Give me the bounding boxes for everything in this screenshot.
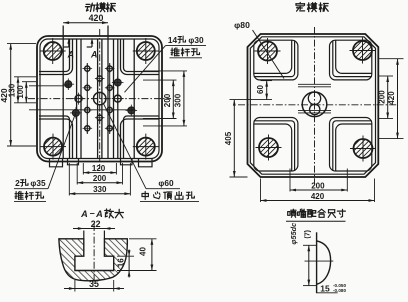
- locating ring and sprue circles: [302, 92, 327, 117]
- 14 ejector pin holes phi30: [85, 66, 90, 71]
- svg-text:420: 420: [311, 192, 325, 201]
- svg-text:200: 200: [311, 181, 325, 190]
- svg-text:2: 2: [15, 178, 20, 188]
- svg-text:200: 200: [377, 90, 386, 104]
- hole row extension lines: [29, 85, 68, 87]
- right dim 300: [143, 70, 187, 72]
- nozzle flat face line: [316, 232, 318, 292]
- label nozzle fitting dimensions: [288, 209, 296, 217]
- svg-text:–: –: [90, 208, 95, 218]
- center ejection hole phi60: [94, 92, 106, 104]
- title: fixed platen: [296, 3, 305, 12]
- svg-text:60: 60: [256, 85, 265, 94]
- svg-text:A: A: [90, 50, 97, 60]
- dim 200 bottom: [289, 169, 291, 192]
- leader to ejector hole: [125, 46, 166, 93]
- svg-text:300: 300: [174, 93, 183, 107]
- svg-text:200: 200: [163, 93, 172, 107]
- moving platen inner contour: [40, 39, 159, 159]
- section marker A right: [91, 41, 93, 48]
- dim 200 right: [379, 75, 393, 77]
- svg-text:φ80: φ80: [234, 20, 250, 30]
- vertical T-slot lines on platen face: [62, 26, 64, 159]
- slot wall extension lines + dim 22: [83, 231, 85, 239]
- left dim 130: [14, 76, 36, 78]
- section marker A left: [68, 41, 70, 48]
- dimension 420 top: [63, 22, 108, 24]
- svg-text:420: 420: [387, 91, 396, 105]
- cross channel edges, rounded pads: [39, 39, 70, 72]
- svg-text:330: 330: [93, 185, 107, 194]
- fixed platen inner contour: [250, 37, 375, 174]
- left dim 100: [22, 81, 36, 83]
- moving platen outer outline: [37, 36, 162, 162]
- svg-text:φ55dc: φ55dc: [289, 223, 298, 245]
- return pin holes: [75, 95, 82, 102]
- guide pillar holes (hatched): [44, 42, 62, 60]
- section centerline: [93, 224, 95, 284]
- pads of fixed platen: [254, 40, 298, 80]
- left dim 420: [7, 43, 36, 45]
- svg-text:(7): (7): [305, 230, 312, 239]
- svg-text:420: 420: [89, 13, 104, 23]
- svg-text:16: 16: [117, 258, 126, 267]
- dim 420 right: [379, 58, 404, 60]
- section blob with T-slot, hatched: [59, 239, 127, 281]
- dim 40: [129, 238, 157, 240]
- bottom feet tabs: [50, 159, 63, 167]
- fixed platen corner holes phi80: [258, 42, 277, 61]
- svg-text:200: 200: [93, 174, 107, 183]
- centerline horizontal: [28, 98, 171, 100]
- svg-text:φ35: φ35: [30, 178, 46, 188]
- centerline vertical: [99, 29, 101, 169]
- dim 15 vertical: [303, 244, 317, 246]
- svg-text:120: 120: [92, 164, 106, 173]
- right dim 200: [143, 79, 177, 81]
- ejector hole column centerlines: [86, 63, 88, 134]
- svg-text:A: A: [80, 209, 88, 219]
- bottom dim 330: [68, 163, 70, 196]
- svg-text:22: 22: [91, 219, 101, 229]
- svg-text:100: 100: [16, 85, 25, 99]
- title: moving platen: [86, 3, 95, 11]
- nozzle seat lines across channel: [298, 83, 331, 85]
- svg-text:14: 14: [168, 35, 178, 45]
- nozzle spherical profile: [317, 241, 331, 284]
- phi35 hatched holes (dark): [65, 81, 72, 88]
- leader to center hole: [104, 104, 146, 189]
- leader to phi35 hole: [48, 114, 76, 189]
- svg-text:405: 405: [224, 131, 233, 145]
- sphere horizontal centerline: [305, 260, 334, 262]
- svg-text:φ60: φ60: [158, 178, 174, 188]
- dim 60 left: [261, 80, 273, 82]
- svg-text:15: 15: [320, 283, 330, 293]
- bottom dim 200: [76, 163, 78, 185]
- svg-text:A: A: [95, 209, 103, 219]
- svg-text:35: 35: [89, 279, 99, 289]
- svg-text:A: A: [67, 50, 74, 60]
- bottom dim 120: [82, 163, 84, 175]
- dim 420 bottom: [260, 179, 262, 203]
- dim 16: [117, 255, 134, 257]
- dim 35: [74, 280, 76, 292]
- svg-text:φ30: φ30: [188, 35, 204, 45]
- fixed platen outer outline: [248, 34, 379, 177]
- svg-text:40: 40: [139, 247, 148, 256]
- dim 405 left: [230, 176, 248, 178]
- fixed platen centerlines: [314, 27, 316, 184]
